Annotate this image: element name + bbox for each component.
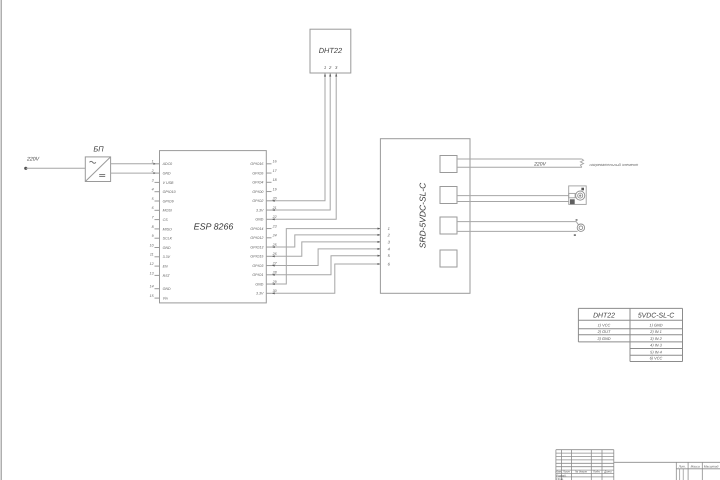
- svg-text:5: 5: [152, 197, 154, 201]
- svg-text:5: 5: [388, 253, 391, 258]
- svg-text:6: 6: [152, 206, 154, 210]
- svg-text:220V: 220V: [26, 156, 40, 162]
- DHT22 pin 1 stub: [324, 73, 326, 77]
- wire ESP 3.3V pin30 to relay pin6: [272, 264, 381, 293]
- relay module U4 SRD-5VDC-SL-C box: [380, 139, 470, 294]
- wire ESP GPIO15 pin26 to relay pin3: [272, 242, 381, 256]
- svg-text:DHT22: DHT22: [593, 312, 615, 319]
- ESP left pin 10 (GND): [155, 247, 160, 249]
- ESP right pin 25 (GPIO13): [266, 246, 271, 248]
- fan M1 terminal block outline: [569, 193, 575, 197]
- svg-text:12: 12: [150, 262, 154, 266]
- fan M1 body box: [569, 186, 587, 205]
- svg-text:3) IN 2: 3) IN 2: [650, 336, 663, 341]
- DC symbol =: [99, 174, 105, 176]
- relay contact block K1: [440, 156, 457, 173]
- svg-text:GND: GND: [255, 218, 263, 222]
- DHT22 pin 3 stub: [335, 73, 337, 77]
- ESP left pin 5 (GPIO9): [155, 200, 160, 202]
- svg-text:Vin: Vin: [163, 297, 168, 301]
- DHT22 pin 2 stub: [329, 73, 331, 77]
- svg-text:24: 24: [272, 234, 277, 238]
- svg-text:GPIO5: GPIO5: [252, 171, 263, 175]
- sheet frame left border line: [0, 0, 2, 480]
- svg-text:3: 3: [152, 178, 154, 182]
- ESP right pin 29 (GND): [266, 283, 271, 285]
- wire break zigzag at heater connection: [580, 159, 583, 167]
- wire ESP GPIO13 pin25 to relay pin2: [272, 235, 381, 247]
- fan M1 rotor inner circle: [578, 193, 583, 198]
- wire relay K2 upper contact to fan: [457, 195, 569, 197]
- svg-text:10: 10: [150, 243, 154, 247]
- microcontroller U2 ESP 8266 box: [160, 151, 267, 303]
- svg-text:GPIO14: GPIO14: [250, 227, 263, 231]
- wire ESP GND pin29 to relay pin1: [272, 229, 381, 284]
- svg-text:2: 2: [328, 65, 332, 70]
- ESP right pin 27 (GPIO3): [266, 265, 271, 267]
- ESP right pin 21 (3.3V): [266, 209, 271, 211]
- connection table left vertical: [577, 308, 579, 342]
- power supply U1 box: [85, 157, 110, 182]
- svg-text:13: 13: [150, 271, 154, 275]
- connection table left column row line: [578, 334, 630, 336]
- ESP left pin 3 (V USB): [155, 181, 160, 183]
- title block main top line: [614, 461, 720, 463]
- ESP left pin 1 (ADC0): [155, 163, 160, 165]
- svg-text:EN: EN: [163, 265, 168, 269]
- title block vertical Масса: [687, 462, 689, 480]
- svg-text:GPIO3: GPIO3: [252, 264, 263, 268]
- AC symbol ~: [90, 161, 96, 163]
- ESP left pin 9 (SCLK): [155, 237, 160, 239]
- ESP right pin 20 (GPIO2): [266, 200, 271, 202]
- lamp HL1 pin mark lower: [574, 234, 576, 236]
- svg-text:GPIO9: GPIO9: [163, 199, 174, 203]
- fan M1 corner cap: [581, 188, 584, 191]
- ESP left pin 6 (MOSI): [155, 209, 160, 211]
- svg-text:3: 3: [388, 239, 391, 244]
- svg-text:23: 23: [272, 224, 277, 228]
- ESP left pin 11 (3.3V): [155, 256, 160, 258]
- wire PSU output to ESP pin 1: [111, 163, 155, 165]
- wire relay K3 upper contact to lamp: [457, 222, 579, 225]
- svg-text:Масштаб: Масштаб: [704, 464, 719, 468]
- svg-text:15: 15: [150, 294, 154, 298]
- svg-text:V USB: V USB: [163, 181, 174, 185]
- svg-text:2: 2: [387, 232, 391, 237]
- svg-text:GPIO15: GPIO15: [250, 255, 263, 259]
- svg-text:11: 11: [150, 253, 154, 257]
- svg-text:RST: RST: [163, 274, 171, 278]
- ESP right pin 24 (GPIO12): [266, 237, 271, 239]
- svg-text:17: 17: [273, 169, 278, 173]
- svg-text:GPIO1: GPIO1: [252, 273, 263, 277]
- svg-text:1: 1: [152, 160, 154, 164]
- ESP left pin 13 (RST): [155, 274, 160, 276]
- sensor U3 DHT22 box: [310, 29, 351, 73]
- title block vertical Масштаб: [701, 462, 703, 480]
- connection table left column row line: [578, 341, 630, 343]
- svg-text:Дата: Дата: [603, 470, 612, 474]
- wire ESP GPIO3 pin27 to relay pin4: [272, 249, 381, 266]
- connection table right column row line: [630, 334, 683, 336]
- svg-text:4: 4: [152, 188, 154, 192]
- svg-text:14: 14: [150, 285, 154, 289]
- svg-text:6: 6: [388, 261, 391, 266]
- svg-text:1) GND: 1) GND: [649, 322, 662, 327]
- connection table outline top: [578, 307, 682, 309]
- ESP right pin 23 (GPIO14): [266, 228, 271, 230]
- title block Лит sub ticks: [679, 469, 681, 480]
- ESP left pin 12 (EN): [155, 265, 160, 267]
- svg-text:1) VCC: 1) VCC: [598, 322, 611, 327]
- ESP right pin 16 (GPIO16): [266, 163, 271, 165]
- svg-text:220V: 220V: [533, 162, 546, 168]
- relay contact block K4: [440, 250, 457, 267]
- fan M1 rotor outer circle: [576, 191, 585, 200]
- title block revision grid verticals: [555, 450, 557, 480]
- svg-text:1: 1: [388, 226, 390, 231]
- ESP right pin 28 (GPIO1): [266, 274, 271, 276]
- svg-text:GPIO13: GPIO13: [250, 245, 263, 249]
- svg-text:Лит.: Лит.: [678, 464, 686, 468]
- svg-text:SCLK: SCLK: [163, 237, 173, 241]
- svg-text:GPIO16: GPIO16: [250, 162, 263, 166]
- connection table right vertical: [682, 308, 684, 361]
- wire DHT22 pin3 to ESP GND (pin 22): [272, 77, 337, 219]
- ESP right pin 18 (GPIO4): [266, 181, 271, 183]
- relay contact block K3: [440, 217, 457, 234]
- title block right section vertical Лит: [675, 462, 677, 480]
- title block revision grid horizontals: [556, 449, 614, 451]
- svg-text:3.3V: 3.3V: [256, 208, 264, 212]
- svg-text:7: 7: [152, 216, 155, 220]
- wire ESP GPIO1 pin28 to relay pin5: [272, 256, 381, 275]
- svg-text:5VDC-SL-C: 5VDC-SL-C: [638, 312, 675, 319]
- svg-text:GND: GND: [163, 287, 171, 291]
- wire relay K2 lower contact to fan: [457, 201, 569, 203]
- wire relay K1 lower contact to heater: [457, 166, 582, 168]
- svg-text:2: 2: [151, 169, 154, 173]
- svg-text:4: 4: [388, 246, 391, 251]
- connection table right column row line: [630, 341, 683, 343]
- svg-text:SRD-5VDC-SL-C: SRD-5VDC-SL-C: [418, 182, 428, 249]
- ESP right pin 30 (3.3V): [266, 292, 271, 294]
- svg-text:GPIO4: GPIO4: [252, 181, 263, 185]
- svg-text:3: 3: [335, 65, 338, 70]
- wire relay K1 upper contact to heater: [457, 158, 582, 160]
- svg-text:4) IN 3: 4) IN 3: [650, 343, 663, 348]
- svg-text:9: 9: [152, 234, 154, 238]
- ESP left pin 8 (MISO): [155, 228, 160, 230]
- connection table left column row line: [578, 328, 630, 330]
- svg-text:GPIO10: GPIO10: [163, 190, 176, 194]
- ESP right pin 17 (GPIO5): [266, 172, 271, 174]
- svg-text:ESP 8266: ESP 8266: [194, 222, 234, 232]
- connection table right column row line: [630, 348, 683, 350]
- ESP right pin 26 (GPIO15): [266, 255, 271, 257]
- svg-text:8: 8: [152, 225, 154, 229]
- relay contact block K2: [440, 187, 457, 204]
- svg-text:БП: БП: [93, 144, 104, 153]
- ESP left pin 7 (CS): [155, 219, 160, 221]
- svg-text:GND: GND: [163, 172, 171, 176]
- ESP left pin 15 (Vin): [155, 297, 160, 299]
- svg-text:3.3V: 3.3V: [256, 292, 264, 296]
- fan M1 hub dot: [579, 195, 581, 197]
- svg-text:ADC0: ADC0: [162, 162, 173, 166]
- connection table header separator: [578, 319, 682, 321]
- wire PSU output to ESP pin 2: [111, 172, 155, 174]
- wire DHT22 pin2 to ESP 3.3V (pin 21): [272, 77, 331, 210]
- svg-text:GPIO2: GPIO2: [252, 199, 263, 203]
- svg-text:5) IN 4: 5) IN 4: [650, 349, 663, 354]
- svg-text:18: 18: [273, 178, 277, 182]
- ESP left pin 2 (GND): [155, 172, 160, 174]
- svg-text:1: 1: [324, 65, 326, 70]
- svg-text:GND: GND: [163, 246, 171, 250]
- fan M1 lower terminal block (filled): [570, 199, 575, 204]
- wire relay K3 lower contact to lamp: [457, 230, 578, 232]
- svg-text:GPIO12: GPIO12: [250, 236, 263, 240]
- lamp HL1 outer circle: [577, 224, 584, 231]
- svg-text:Подп.: Подп.: [593, 470, 601, 474]
- wire 220V to power supply input: [26, 167, 86, 169]
- power supply diagonal divider: [85, 157, 110, 182]
- svg-text:нагревательный элемент: нагревательный элемент: [590, 162, 640, 167]
- lamp HL1 pin mark upper: [576, 219, 578, 221]
- svg-text:GPIO0: GPIO0: [252, 190, 263, 194]
- title block right header underline: [676, 468, 720, 470]
- svg-text:2) OUT: 2) OUT: [597, 329, 611, 334]
- svg-text:MISO: MISO: [163, 227, 172, 231]
- connection table right column row line: [630, 328, 683, 330]
- svg-text:№ докум.: № докум.: [575, 470, 588, 474]
- connection table right column row line: [630, 361, 683, 363]
- svg-text:CS: CS: [163, 218, 169, 222]
- ESP left pin 4 (GPIO10): [155, 191, 160, 193]
- ESP right pin 19 (GPIO0): [266, 191, 271, 193]
- svg-text:MOSI: MOSI: [163, 209, 172, 213]
- svg-text:DHT22: DHT22: [319, 46, 342, 55]
- connection table middle vertical: [629, 308, 631, 361]
- svg-text:6) VCC: 6) VCC: [650, 356, 663, 361]
- node terminal dot 220V: [24, 167, 27, 170]
- svg-text:2) IN 1: 2) IN 1: [649, 329, 662, 334]
- svg-text:GND: GND: [255, 282, 263, 286]
- lamp HL1 inner circle: [579, 226, 583, 230]
- connection table right column row line: [630, 354, 683, 356]
- svg-text:3) GND: 3) GND: [597, 336, 610, 341]
- svg-text:16: 16: [273, 160, 277, 164]
- svg-text:Масса: Масса: [691, 464, 700, 468]
- wire DHT22 pin1 to ESP GPIO2 (pin 20): [272, 77, 326, 201]
- svg-text:19: 19: [273, 187, 277, 191]
- ESP right pin 22 (GND): [266, 218, 271, 220]
- ESP left pin 14 (GND): [155, 288, 160, 290]
- svg-text:3.3V: 3.3V: [163, 255, 171, 259]
